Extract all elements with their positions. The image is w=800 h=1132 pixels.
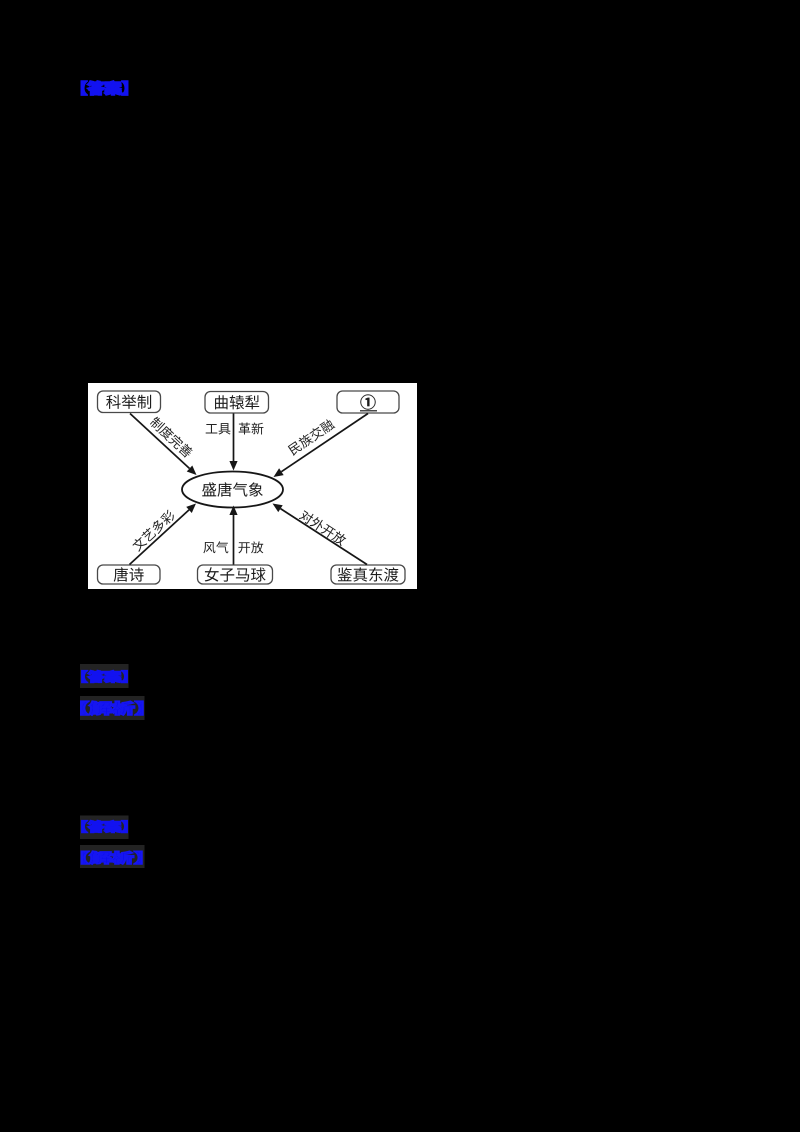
highlight band behind 【解析】 #2 bbox=[80, 845, 145, 868]
heading 【解析】 #2 bbox=[82, 851, 142, 864]
box 女子马球 bbox=[198, 565, 273, 584]
heading 【解析】 #1 bbox=[81, 701, 142, 715]
arrow 曲辕犁→盛唐气象 bbox=[229, 414, 237, 471]
heading 【答案】 #1 bbox=[81, 81, 127, 95]
arrow 女子马球→盛唐气象 bbox=[229, 506, 237, 565]
label 工具 bbox=[206, 423, 231, 434]
heading 【答案】 #3 bbox=[82, 820, 127, 832]
highlight band behind 【答案】 #3 bbox=[80, 816, 129, 840]
center ellipse 盛唐气象 bbox=[182, 472, 283, 508]
arrow ①→盛唐气象 bbox=[274, 414, 369, 478]
highlight band behind 【答案】 #2 bbox=[80, 664, 129, 688]
label 文艺多彩 bbox=[131, 509, 177, 553]
arrow 唐诗→盛唐气象 bbox=[130, 504, 197, 565]
label 对外开放 bbox=[298, 509, 347, 547]
label 制度完善 bbox=[149, 415, 195, 458]
label 开放 bbox=[238, 541, 263, 553]
label 风气 bbox=[203, 541, 228, 553]
box 曲辕犁 bbox=[205, 392, 269, 414]
box ① bbox=[337, 391, 399, 413]
label 民族交融 bbox=[287, 418, 336, 456]
highlight band behind 【解析】 #1 bbox=[80, 696, 145, 720]
underline below ① bbox=[360, 410, 377, 412]
white figure background bbox=[88, 383, 417, 589]
box 科举制 bbox=[98, 391, 161, 413]
box 鉴真东渡 bbox=[331, 565, 405, 584]
box 唐诗 bbox=[98, 565, 161, 584]
heading 【答案】 #2 bbox=[82, 670, 127, 682]
arrow 鉴真东渡→盛唐气象 bbox=[273, 504, 368, 565]
arrow 科举制→盛唐气象 bbox=[130, 414, 197, 476]
label 革新 bbox=[239, 422, 264, 434]
